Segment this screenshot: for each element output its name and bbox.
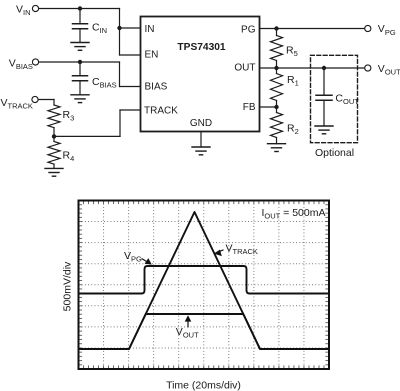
svg-text:R1: R1: [287, 74, 299, 88]
wire PG horizontal: [260, 28, 365, 30]
wire VTRACK horizontal: [38, 99, 54, 101]
svg-text:IOUT = 500mA: IOUT = 500mA: [261, 207, 325, 221]
svg-text:Optional: Optional: [315, 147, 354, 159]
wire R1 bottom lead: [276, 101, 278, 108]
node VTRACK terminal: [32, 96, 38, 102]
node junction R5/R1: [274, 66, 278, 70]
wire track vertical: [119, 110, 121, 136]
plot border: [79, 201, 330, 370]
arrow VOUT: [185, 315, 192, 327]
wire to TRACK pin: [120, 109, 141, 111]
node junction CBIAS: [78, 60, 82, 64]
node junction IN/EN: [117, 26, 121, 30]
waveform VOUT clipped: [79, 314, 330, 349]
svg-text:VPG: VPG: [124, 250, 142, 264]
wire VIN horizontal: [39, 8, 120, 10]
wire to EN pin: [120, 54, 141, 56]
svg-text:GND: GND: [190, 118, 212, 129]
svg-text:R3: R3: [63, 109, 75, 123]
wire R5 bottom lead: [276, 61, 278, 69]
resistor R4: [48, 142, 60, 165]
grid horizontal dotted lines: [79, 222, 330, 348]
wire R4 bottom lead: [53, 164, 55, 168]
wire VBIAS horizontal: [39, 61, 120, 63]
svg-text:Time (20ms/div): Time (20ms/div): [166, 379, 241, 391]
wire CBIAS top lead: [79, 62, 81, 76]
node junction FB: [274, 105, 278, 109]
wire track feedback horizontal: [54, 135, 120, 137]
wire VIN down to IN/EN: [119, 9, 121, 56]
wire CIN top lead: [79, 9, 81, 24]
node junction R5 top: [274, 26, 278, 30]
node VPG terminal: [365, 25, 371, 31]
resistor R1: [271, 74, 283, 101]
ground GND: [192, 147, 210, 155]
waveform VPG pulse: [79, 266, 330, 294]
svg-text:IN: IN: [145, 24, 155, 35]
wire to IN pin: [120, 27, 141, 29]
svg-text:500mV/div: 500mV/div: [62, 261, 74, 311]
node junction COUT: [322, 66, 326, 70]
arrow VPG: [142, 258, 152, 265]
svg-text:CBIAS: CBIAS: [92, 76, 117, 90]
ground CBIAS: [71, 95, 89, 103]
capacitor C_OUT: [316, 95, 332, 100]
node VBIAS terminal: [32, 59, 38, 65]
wire R5 top lead: [276, 29, 278, 36]
svg-text:FB: FB: [243, 102, 256, 113]
svg-text:VBIAS: VBIAS: [9, 57, 33, 71]
svg-text:COUT: COUT: [335, 92, 359, 106]
wire VBIAS down: [119, 62, 121, 87]
grid minor ticks: [80, 202, 329, 369]
ground CIN: [71, 43, 89, 51]
svg-text:R5: R5: [286, 45, 298, 59]
wire CBIAS bottom lead: [79, 81, 81, 95]
arrow VTRACK: [214, 250, 224, 257]
capacitor C_BIAS: [73, 76, 88, 81]
svg-text:TPS74301: TPS74301: [177, 42, 225, 53]
svg-text:R4: R4: [63, 150, 75, 164]
node VIN terminal: [32, 5, 38, 11]
wire OUT horizontal: [260, 67, 365, 69]
svg-text:R2: R2: [287, 122, 299, 136]
ground R2: [268, 144, 286, 152]
svg-text:VOUT: VOUT: [176, 326, 199, 340]
resistor R2: [271, 113, 283, 138]
wire GND pin lead: [200, 132, 202, 148]
wire COUT bottom lead: [323, 100, 325, 126]
grid vertical dotted lines: [104, 201, 304, 370]
svg-text:CIN: CIN: [92, 21, 107, 35]
wire CIN bottom lead: [79, 29, 81, 43]
svg-text:PG: PG: [241, 24, 256, 35]
resistor R3: [48, 105, 60, 128]
capacitor C_IN: [73, 24, 88, 29]
svg-text:VIN: VIN: [16, 4, 31, 18]
optional dashed box: [311, 55, 358, 142]
svg-text:BIAS: BIAS: [145, 82, 168, 93]
svg-text:TRACK: TRACK: [144, 105, 178, 116]
wire to BIAS pin: [120, 86, 141, 88]
svg-text:OUT: OUT: [234, 62, 255, 73]
graph plot area: [79, 201, 330, 370]
svg-text:EN: EN: [145, 50, 159, 61]
svg-text:VOUT: VOUT: [378, 63, 400, 77]
svg-text:VTRACK: VTRACK: [226, 243, 258, 257]
ground R4: [45, 168, 63, 176]
wire R2 top lead: [276, 107, 278, 113]
svg-text:VPG: VPG: [378, 23, 396, 37]
wire R3 to R4: [53, 128, 55, 142]
wire COUT top lead: [323, 68, 325, 95]
wire R1 top lead: [276, 68, 278, 74]
waveform VTRACK triangle: [79, 212, 330, 349]
node VOUT terminal: [365, 65, 371, 71]
node junction CIN: [78, 6, 82, 10]
ground COUT: [315, 126, 333, 134]
svg-text:VTRACK: VTRACK: [1, 97, 33, 111]
node junction R3/R4: [52, 134, 56, 138]
op-amp U1 TPS74301 box: [141, 17, 260, 132]
wire FB pin: [260, 106, 277, 108]
wire R3 top lead: [53, 100, 55, 106]
wire R2 bottom lead: [276, 138, 278, 144]
resistor R5: [271, 36, 283, 61]
